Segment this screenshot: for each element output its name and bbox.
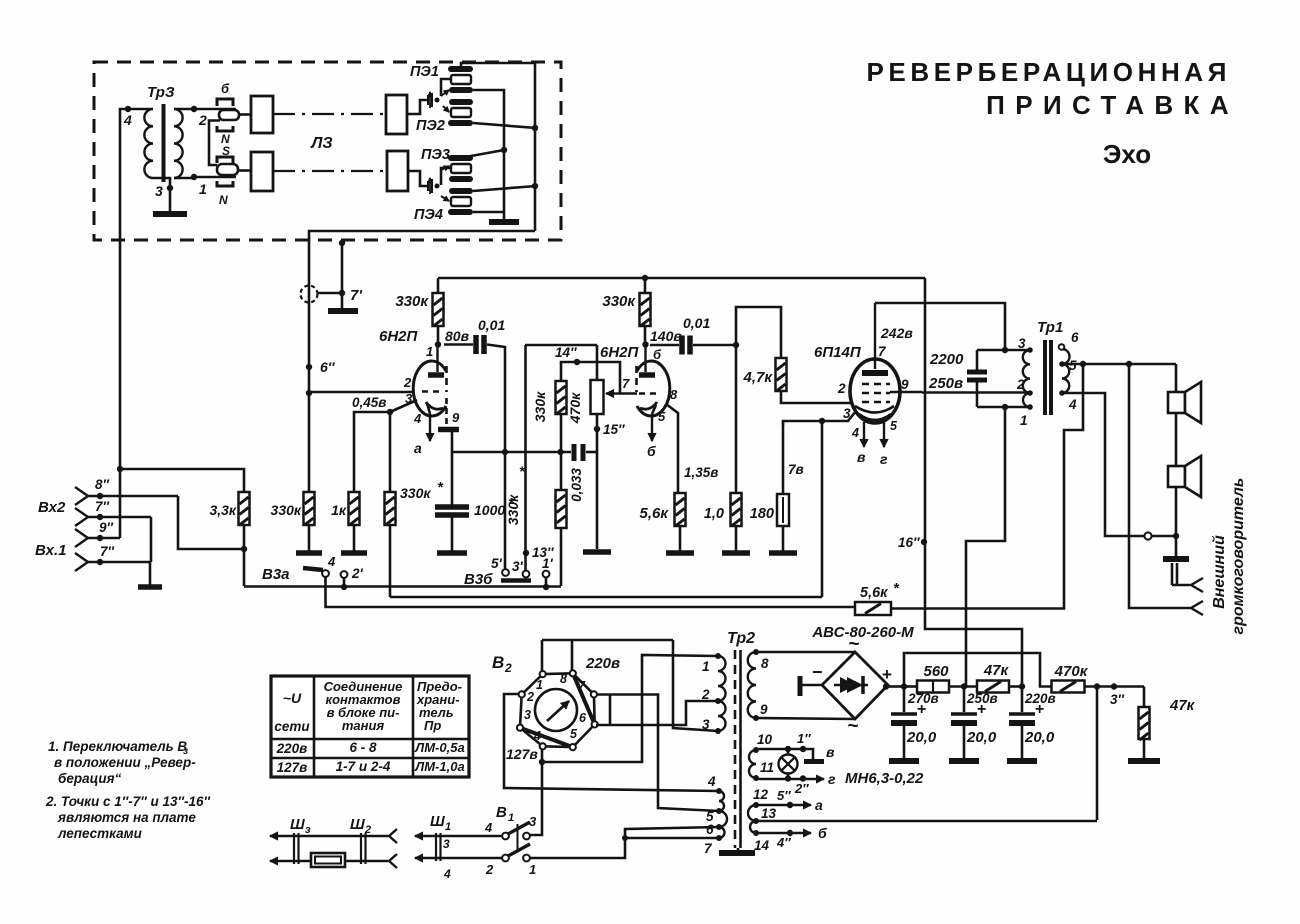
svg-text:2: 2 xyxy=(837,381,846,396)
node under 3,3к xyxy=(243,525,246,549)
wire contact7 to Тр2-5 xyxy=(597,695,719,812)
node anode 1 xyxy=(435,341,441,347)
resistor 330к* lower xyxy=(560,414,563,452)
Тр1 pin 3 xyxy=(1027,347,1033,353)
svg-text:МН6,3-0,22: МН6,3-0,22 xyxy=(845,770,924,787)
Тр1 pin 2 xyxy=(1027,390,1033,396)
B+ filter rail xyxy=(904,685,918,688)
Тр2 core dashed xyxy=(734,650,737,848)
В2 contact 4 xyxy=(540,743,546,749)
svg-text:6П14П: 6П14П xyxy=(814,344,862,361)
svg-text:4: 4 xyxy=(413,411,422,426)
svg-text:3: 3 xyxy=(529,814,537,829)
capacitor 1000* xyxy=(451,452,454,505)
Тр2 HV winding 8-9 xyxy=(748,652,756,718)
tube V2 anode pin 7 xyxy=(874,303,876,369)
resistor 47к bleeder xyxy=(1143,687,1146,708)
Тр2 pin 7 xyxy=(716,835,722,841)
ground under 180 xyxy=(769,550,797,556)
fork right lower xyxy=(389,854,397,868)
tube V1b pin 8 lead xyxy=(666,404,678,493)
Тр2 heater winding 12-13-14 xyxy=(748,805,756,821)
pickup coil symbol bottom xyxy=(408,171,428,186)
delay line rod right-bottom block xyxy=(387,151,408,191)
Тр1 secondary winding xyxy=(1062,349,1070,364)
В1 mechanical link xyxy=(517,824,519,852)
wire Тр1 bottom to 250в node xyxy=(966,407,1005,686)
svg-text:б: б xyxy=(647,443,656,459)
svg-text:3: 3 xyxy=(702,717,710,732)
Тр2 pin 5 xyxy=(716,808,722,814)
Тр2 lamp winding 10-11 xyxy=(749,750,756,778)
wire 3,3к node down to В3а bus xyxy=(243,549,246,586)
svg-text:АВС-80-260-М: АВС-80-260-М xyxy=(811,624,914,641)
resistor 3,3к xyxy=(239,492,250,525)
wire contact1 up xyxy=(541,640,544,671)
svg-text:тания: тания xyxy=(342,718,385,733)
svg-text:*: * xyxy=(519,463,525,479)
svg-text:7: 7 xyxy=(622,376,630,391)
В2 bridge 8-6 xyxy=(573,673,595,724)
cap 20,0 second xyxy=(963,686,966,712)
svg-text:9: 9 xyxy=(760,702,768,717)
wire plate to Тр1 xyxy=(875,303,1005,350)
svg-text:0,033: 0,033 xyxy=(569,468,584,502)
svg-text:0,01: 0,01 xyxy=(683,315,710,331)
svg-text:5: 5 xyxy=(570,727,578,741)
wire contact7 branch xyxy=(609,695,612,725)
tube V2 grid3 pin 9 lead xyxy=(890,391,922,393)
piezo stack 1 top bar xyxy=(448,66,473,72)
svg-text:1: 1 xyxy=(199,181,207,197)
shield pass circle xyxy=(301,286,318,303)
wire Тр3 pin1 to bottom head xyxy=(194,176,236,179)
svg-text:3': 3' xyxy=(512,559,524,574)
rectifier bridge diamond xyxy=(822,652,888,719)
wire contact8 up xyxy=(571,640,574,670)
wire Тр3 pin4 to left rail xyxy=(120,109,128,240)
ground under 0,033 xyxy=(583,549,611,555)
wire contact6 to Тр2-2 xyxy=(596,701,718,725)
node 15 double-prime xyxy=(594,426,600,432)
driver head bottom bar xyxy=(217,164,238,175)
Тр2 core solid xyxy=(739,650,742,848)
wire В1-1 to Тр2-6 xyxy=(530,827,719,858)
svg-text:6Н2П: 6Н2П xyxy=(379,328,419,345)
svg-text:2: 2 xyxy=(198,112,207,128)
svg-text:6: 6 xyxy=(579,711,587,725)
tube V1a grid xyxy=(422,390,444,393)
stack1 left connections xyxy=(441,79,451,96)
svg-text:20,0: 20,0 xyxy=(966,729,997,746)
svg-text:1″: 1″ xyxy=(797,731,811,746)
svg-text:4: 4 xyxy=(707,774,716,789)
tube V1a cathode xyxy=(426,402,443,409)
svg-text:9: 9 xyxy=(901,377,909,392)
svg-text:1,35в: 1,35в xyxy=(684,465,718,480)
magnet pole bracket N bottom xyxy=(217,181,233,186)
feedback resistor 5,6к starred xyxy=(855,602,891,615)
resistor 330к input xyxy=(308,393,311,492)
Тр2 pin 4 xyxy=(716,788,722,794)
svg-text:а: а xyxy=(414,440,422,456)
svg-text:9″: 9″ xyxy=(99,520,114,535)
В1 pole 2 blade xyxy=(508,844,530,856)
svg-text:В3б: В3б xyxy=(464,571,493,588)
wire speaker 2 down xyxy=(1175,487,1178,536)
svg-text:11: 11 xyxy=(760,760,774,775)
svg-text:2200: 2200 xyxy=(929,351,964,368)
node 8 double-prime xyxy=(88,495,178,498)
wire 8-inch input to amplifier xyxy=(178,496,244,549)
svg-text:б: б xyxy=(221,81,230,96)
svg-text:1: 1 xyxy=(426,344,433,359)
capacitor 0,01 first xyxy=(473,335,479,354)
magnet pole bracket N mid-top xyxy=(217,126,233,131)
svg-text:В: В xyxy=(492,653,504,672)
svg-text:4: 4 xyxy=(123,112,132,128)
node 6 prime xyxy=(306,364,312,370)
wire cathode node to 180 xyxy=(783,421,822,425)
driver head top bar xyxy=(219,110,239,120)
table row line 2 xyxy=(271,757,469,760)
piezo stack 1 bar 2 xyxy=(449,87,473,93)
wire 330к* down to long bus xyxy=(389,525,392,597)
Тр2 pin 2 xyxy=(715,698,721,704)
svg-text:9: 9 xyxy=(452,410,460,425)
wire В3б to pot top xyxy=(525,344,597,347)
speaker 1 xyxy=(1175,364,1178,392)
capacitor 1,0 xyxy=(735,345,738,493)
Тр1 primary winding xyxy=(1023,350,1030,393)
tube V1a anode xyxy=(436,344,438,372)
wire 0,01-2 to output grid node xyxy=(693,344,736,347)
svg-text:г: г xyxy=(880,451,888,467)
svg-text:330к: 330к xyxy=(505,494,521,525)
svg-text:140в: 140в xyxy=(650,328,682,344)
svg-text:8″: 8″ xyxy=(95,477,110,492)
svg-text:5,6к: 5,6к xyxy=(860,585,888,601)
wire pot bottom down xyxy=(596,414,599,452)
piezo stack 2 bar 3 xyxy=(449,188,473,194)
piezo stack 2 element 2 xyxy=(451,197,471,206)
svg-text:4″: 4″ xyxy=(776,835,791,850)
svg-text:12: 12 xyxy=(753,787,769,802)
В2 contact 7 xyxy=(591,691,597,697)
svg-text:20,0: 20,0 xyxy=(906,729,937,746)
svg-text:Тр2: Тр2 xyxy=(727,630,755,647)
svg-text:ЛМ-1,0а: ЛМ-1,0а xyxy=(414,759,464,774)
wire 4,7к to output grid xyxy=(781,391,850,403)
external speaker lower prong xyxy=(1191,601,1203,615)
ground cap2 xyxy=(949,758,979,764)
Тр2 pin 13 xyxy=(753,818,759,824)
svg-text:5,6к: 5,6к xyxy=(640,505,670,522)
tube V2 pin 3 lead xyxy=(822,411,856,421)
stack1 wiring to bus xyxy=(461,63,535,231)
plate supply bus top xyxy=(438,277,925,280)
В1 pole 1 blade xyxy=(508,822,530,834)
potentiometer 470к xyxy=(596,345,599,380)
svg-text:2: 2 xyxy=(526,690,534,704)
svg-text:16″: 16″ xyxy=(898,535,920,550)
ground under 1000* xyxy=(437,550,467,556)
svg-text:4: 4 xyxy=(533,729,541,743)
svg-text:5: 5 xyxy=(890,419,898,433)
mains wire lower xyxy=(270,860,310,862)
В2 contact 5 xyxy=(570,744,576,750)
blocking bar xyxy=(1175,536,1178,556)
resistor 560 xyxy=(917,681,949,693)
Ш1 wire upper xyxy=(415,835,455,837)
В2 rotor arrow xyxy=(547,701,569,721)
table row line header xyxy=(271,738,469,741)
input junction node xyxy=(117,466,123,472)
node 14 double-prime xyxy=(574,359,580,365)
wire cathode node down to fb bus xyxy=(821,421,824,597)
svg-text:1: 1 xyxy=(702,659,710,674)
svg-text:4,7к: 4,7к xyxy=(743,369,774,386)
speaker 2 xyxy=(1168,466,1185,487)
external speaker feed wires xyxy=(1171,563,1174,585)
rectifier diode symbol xyxy=(840,677,856,693)
node 9 double-prime xyxy=(88,537,120,540)
wire Тр1 pin5 to speakers xyxy=(1062,363,1176,366)
wire 14 to б xyxy=(756,832,790,835)
Тр1 pin 5 xyxy=(1059,361,1065,367)
input Вх2 fork upper xyxy=(75,487,88,505)
svg-text:330к: 330к xyxy=(602,293,636,310)
wire В3а-4 to feedback resistor xyxy=(326,577,858,607)
ground 47к bleeder xyxy=(1128,758,1160,764)
B+ rail down from bus xyxy=(924,278,927,542)
В2 contact 8 xyxy=(570,670,576,676)
ground cap1 xyxy=(889,758,919,764)
svg-text:4: 4 xyxy=(327,554,336,569)
svg-text:470к: 470к xyxy=(567,392,583,424)
Тр2 pin 12 xyxy=(753,802,759,808)
tube V1b cathode pin 5 xyxy=(652,405,656,414)
svg-text:РЕВЕРБЕРАЦИОННАЯ: РЕВЕРБЕРАЦИОННАЯ xyxy=(866,57,1231,87)
bus В3а horizontal xyxy=(244,585,561,588)
svg-text:ПЭ1: ПЭ1 xyxy=(410,64,439,80)
node cathode V2 xyxy=(819,418,825,424)
bias wire down to heater line xyxy=(1096,687,1099,821)
svg-text:8: 8 xyxy=(761,656,769,671)
Ш2 connector bars xyxy=(360,833,362,864)
tube V2 grids xyxy=(862,383,890,385)
Тр1 core xyxy=(1043,340,1047,415)
svg-text:Внешний: Внешний xyxy=(1211,535,1228,609)
input ground bar xyxy=(138,584,162,590)
wire bottom head to rod xyxy=(238,169,251,172)
svg-text:5: 5 xyxy=(658,409,666,424)
delay line dash-dot top xyxy=(273,113,386,115)
svg-text:2″: 2″ xyxy=(794,781,809,796)
piezo stack 2 element 1 xyxy=(451,164,471,173)
svg-text:80в: 80в xyxy=(445,328,470,344)
Тр2 pin 14 xyxy=(753,830,759,836)
tube V1b cathode xyxy=(640,402,657,409)
Тр2 pin 8 xyxy=(753,649,759,655)
wire pin9 to Тр1 pin2 xyxy=(922,391,1030,394)
node 16 double-prime xyxy=(921,539,927,545)
external speaker upper prong xyxy=(1191,578,1203,592)
В2 contact 6 xyxy=(592,721,598,727)
svg-text:2: 2 xyxy=(485,862,494,877)
svg-text:2. Точки с 1″-7″ и 13″-16″: 2. Точки с 1″-7″ и 13″-16″ xyxy=(45,794,210,809)
Ш3 connector bars xyxy=(293,833,295,864)
pot wiper arrow xyxy=(606,392,620,394)
svg-text:N: N xyxy=(219,193,228,207)
svg-text:3,3к: 3,3к xyxy=(209,502,236,518)
resistor 330к grid leak 2 xyxy=(556,381,567,414)
node anode 2 xyxy=(642,341,648,347)
svg-text:1: 1 xyxy=(445,821,451,833)
wire 0,01 output to В3б 5' xyxy=(504,452,507,569)
ground at 7 prime xyxy=(328,308,358,314)
В2 rotor circle xyxy=(535,689,577,731)
rectifier minus terminal xyxy=(798,676,803,696)
svg-text:В3а: В3а xyxy=(262,566,290,583)
svg-text:6Н2П: 6Н2П xyxy=(600,344,640,361)
rail to 250в node xyxy=(949,685,978,688)
delay line rod left-bottom block xyxy=(251,152,273,191)
wire 330к to ground xyxy=(308,525,311,551)
svg-text:0,01: 0,01 xyxy=(478,317,505,333)
delay line dash-dot bottom xyxy=(273,170,387,172)
В3б contact 3 prime xyxy=(523,571,530,578)
node 127в xyxy=(539,759,545,765)
node supply second stage xyxy=(642,275,648,281)
В2 contact 1 xyxy=(540,671,546,677)
input Вх1 fork lower xyxy=(75,553,88,571)
svg-text:47к: 47к xyxy=(983,662,1010,679)
resistor 470к xyxy=(1052,681,1085,693)
svg-text:а: а xyxy=(815,797,823,813)
svg-text:2: 2 xyxy=(701,687,710,702)
svg-text:13: 13 xyxy=(761,806,777,821)
tube V1a envelope xyxy=(413,361,446,416)
Тр2 pin 1 xyxy=(715,653,721,659)
head yoke wire xyxy=(209,121,220,166)
node output grid network xyxy=(733,342,739,348)
wire head unit output to amplifier xyxy=(309,231,535,393)
cap 20,0 third xyxy=(1021,686,1024,712)
capacitor 0,033 xyxy=(505,451,571,454)
wire 8 to bridge top xyxy=(756,651,855,654)
resistor 1к xyxy=(349,492,360,525)
svg-text:ПЭ3: ПЭ3 xyxy=(421,147,450,163)
svg-text:ТрЗ: ТрЗ xyxy=(147,84,175,101)
svg-text:3: 3 xyxy=(524,708,531,722)
svg-text:ПРИСТАВКА: ПРИСТАВКА xyxy=(986,90,1239,120)
В1 pole 1 contact 4 xyxy=(502,833,509,840)
В1 pole 2 contact 2 xyxy=(502,855,509,862)
В1 pole 1 contact 3 xyxy=(523,833,530,840)
capacitor 0,01 second xyxy=(650,344,679,347)
wire Тр3 pin2 to top head xyxy=(194,108,236,111)
svg-text:сети: сети xyxy=(274,719,310,734)
wire bridge plus to rail xyxy=(888,685,904,688)
Тр2 winding 4-7 xyxy=(719,791,724,811)
ground cap3 xyxy=(1007,758,1037,764)
tube V1b anode pin 6 xyxy=(644,344,646,372)
svg-text:1,0: 1,0 xyxy=(704,506,724,522)
svg-text:в: в xyxy=(826,744,835,760)
svg-text:4: 4 xyxy=(1068,397,1077,412)
svg-text:3″: 3″ xyxy=(1110,692,1125,707)
resistor 47к filter xyxy=(977,681,1009,693)
svg-text:3: 3 xyxy=(155,183,163,199)
resistor 4,7к xyxy=(776,358,787,391)
rail to 220в node xyxy=(1009,685,1022,688)
Тр1 pin 4 xyxy=(1059,390,1065,396)
resistor 180 xyxy=(782,422,785,494)
ground under Тр3 xyxy=(169,188,172,213)
svg-text:4: 4 xyxy=(851,426,859,440)
В2 selector body octagon xyxy=(520,673,595,747)
Тр1 primary top rail xyxy=(977,349,1030,352)
svg-text:ПЭ2: ПЭ2 xyxy=(416,118,445,134)
resistor 330к anode load 1 xyxy=(437,278,440,293)
svg-text:4: 4 xyxy=(443,867,451,881)
svg-text:+: + xyxy=(977,701,986,718)
node 13 double-prime xyxy=(524,345,527,570)
svg-text:330к: 330к xyxy=(271,502,302,518)
fork right upper xyxy=(389,829,397,843)
В3а contact 2 prime xyxy=(341,571,348,578)
Тр2 primary winding 2-3 xyxy=(718,701,726,731)
svg-text:+: + xyxy=(882,665,892,684)
svg-text:2: 2 xyxy=(403,375,412,390)
wire pin9 to cathode node xyxy=(452,429,505,452)
lamp wire to lug в xyxy=(803,749,813,759)
wire input ground xyxy=(149,562,152,585)
svg-text:2': 2' xyxy=(351,566,364,581)
wire junction to Тр2-7 xyxy=(622,835,628,841)
input Вх2 fork lower xyxy=(75,508,88,526)
svg-text:Вх2: Вх2 xyxy=(38,499,66,516)
svg-text:ЛМ-0,5а: ЛМ-0,5а xyxy=(414,740,464,755)
Тр1 pin 1 xyxy=(1027,404,1033,410)
resistor 5,6к cathode xyxy=(675,493,686,526)
svg-text:з: з xyxy=(305,824,311,836)
transformer Тр3 core xyxy=(162,104,166,182)
fuse Пр xyxy=(311,853,345,867)
В2 contact 3 xyxy=(517,725,523,731)
Тр2 pin 3 xyxy=(715,728,721,734)
wire left rail down to input junction xyxy=(119,240,122,469)
Ш1 connector bars xyxy=(435,833,437,861)
svg-text:5: 5 xyxy=(1069,358,1077,373)
svg-text:В: В xyxy=(496,804,507,821)
tube V2 heater pin 5 xyxy=(883,422,885,447)
piezo stack 2 bar 2 xyxy=(449,176,473,182)
piezo stack 2 bottom bar xyxy=(448,209,473,215)
В3б contact 1 prime xyxy=(543,571,550,578)
svg-text:220в: 220в xyxy=(585,655,620,672)
node cathode net xyxy=(502,449,508,455)
svg-text:1: 1 xyxy=(508,812,514,824)
svg-text:Тр1: Тр1 xyxy=(1037,319,1063,336)
ground under 1,0 xyxy=(722,550,750,556)
svg-text:−: − xyxy=(812,662,823,682)
pilot lamp МН6,3 xyxy=(779,755,798,774)
svg-text:7″: 7″ xyxy=(95,499,110,514)
svg-text:1: 1 xyxy=(1020,413,1028,428)
tube V2 heater pin 4 xyxy=(863,422,865,447)
